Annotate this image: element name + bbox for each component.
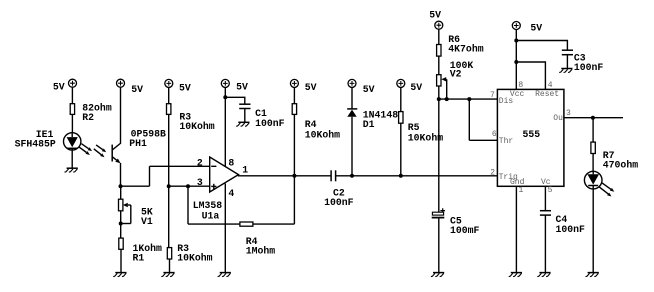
resistor R4 1Mohm (feedback) bbox=[240, 222, 275, 257]
junction C1 tap bbox=[223, 95, 227, 99]
svg-text:V1: V1 bbox=[141, 216, 153, 227]
wire 5V to R5 bbox=[400, 88, 402, 112]
junction Dis rail left bbox=[437, 97, 441, 101]
wire feedback left leg bbox=[187, 186, 189, 224]
capacitor C3 100nF bbox=[562, 50, 604, 73]
svg-text:5V: 5V bbox=[305, 82, 317, 93]
wire 5V to D1 bbox=[351, 88, 353, 109]
capacitor C4 100nF bbox=[540, 211, 585, 235]
svg-text:5V: 5V bbox=[363, 84, 375, 95]
resistor R3 10Kohm (upper) bbox=[167, 104, 215, 132]
resistor R6 4K7ohm bbox=[437, 34, 484, 56]
wire R4 to output column bbox=[253, 223, 295, 225]
svg-text:R1: R1 bbox=[133, 252, 145, 263]
phototransistor PH1 0P598B bbox=[112, 87, 166, 186]
resistor R3 10Kohm (lower) bbox=[167, 243, 212, 263]
svg-text:5V: 5V bbox=[530, 22, 542, 33]
light ray arrow from LED (upper) bbox=[602, 183, 614, 192]
wire V1 to R1 bbox=[120, 211, 122, 238]
junction out node bbox=[591, 116, 595, 120]
svg-text:4K7ohm: 4K7ohm bbox=[448, 44, 483, 55]
wire op-amp pin 4 to ground bbox=[224, 184, 226, 273]
wire C1 tap bbox=[225, 97, 245, 104]
light ray arrow from LED (lower) bbox=[599, 187, 611, 197]
wire feedback to R4 bbox=[188, 223, 240, 225]
svg-text:U1a: U1a bbox=[202, 210, 220, 221]
junction divider to op-amp pin 3 bbox=[167, 184, 171, 188]
wire 555 pin 1 to ground bbox=[515, 186, 517, 272]
wire C5 column bbox=[438, 99, 440, 213]
wire 5V to R6 bbox=[438, 29, 440, 44]
svg-text:4: 4 bbox=[548, 81, 553, 90]
capacitor C1 100nF bbox=[239, 104, 284, 129]
ground (C4) bbox=[537, 273, 550, 277]
svg-text:5V: 5V bbox=[53, 82, 65, 93]
svg-text:100nF: 100nF bbox=[324, 197, 354, 208]
svg-text:5V: 5V bbox=[179, 82, 191, 93]
ground (IE1) bbox=[65, 168, 78, 172]
supply 5V (IE1 branch) bbox=[53, 79, 77, 92]
junction output node bbox=[292, 174, 296, 178]
junction C3 tap bbox=[514, 39, 518, 43]
wire jog to op-amp pin 2 bbox=[150, 165, 210, 167]
wire R3 divider column bbox=[168, 114, 170, 247]
svg-text:SFH485P: SFH485P bbox=[15, 139, 56, 150]
resistor R1 1Kohm bbox=[119, 238, 162, 263]
wire Thr jog down bbox=[468, 99, 470, 140]
wire Thr jog to 555 pin 6 bbox=[469, 139, 497, 141]
svg-text:8: 8 bbox=[228, 157, 234, 168]
wire LED to ground bbox=[592, 189, 594, 273]
svg-text:470ohm: 470ohm bbox=[603, 160, 638, 171]
ground (R1) bbox=[113, 273, 126, 277]
svg-text:2: 2 bbox=[197, 157, 203, 168]
junction R5 node bbox=[399, 174, 403, 178]
ground (R3 divider) bbox=[161, 273, 174, 277]
light ray arrow to PH1 (lower) bbox=[94, 149, 105, 158]
IC U2 555 bbox=[497, 89, 564, 186]
LED IE1 SFH485P bbox=[15, 129, 81, 150]
svg-text:Dis: Dis bbox=[499, 97, 514, 106]
svg-text:10Kohm: 10Kohm bbox=[177, 252, 212, 263]
wire 5V to R2 bbox=[71, 87, 73, 103]
svg-text:10Kohm: 10Kohm bbox=[179, 121, 214, 132]
svg-text:5V: 5V bbox=[131, 84, 143, 95]
svg-text:Reset: Reset bbox=[535, 90, 559, 99]
svg-text:10Kohm: 10Kohm bbox=[408, 132, 443, 143]
wire out node to R7 bbox=[592, 118, 594, 142]
wire 5V to op-amp pin 8 bbox=[224, 88, 226, 168]
ground (555 Gnd) bbox=[509, 273, 522, 277]
wire C5 to ground bbox=[438, 217, 440, 272]
ground (op-amp pin 4) bbox=[218, 273, 231, 277]
svg-text:D1: D1 bbox=[363, 119, 375, 130]
svg-text:PH1: PH1 bbox=[129, 138, 147, 149]
svg-text:3: 3 bbox=[566, 109, 571, 118]
supply 5V (555 Vcc) bbox=[512, 22, 542, 34]
potentiometer V2 100K bbox=[437, 60, 474, 99]
wire R6 to V2 bbox=[438, 56, 440, 75]
wire R7 to LED bbox=[592, 154, 594, 172]
resistor R5 10Kohm bbox=[399, 112, 444, 144]
wire C3 tap bbox=[516, 41, 567, 51]
supply 5V (R5) bbox=[397, 79, 422, 93]
svg-text:1: 1 bbox=[519, 186, 524, 195]
svg-text:10Kohm: 10Kohm bbox=[305, 129, 340, 140]
wire C1 to ground bbox=[244, 109, 246, 123]
svg-text:Ou: Ou bbox=[553, 114, 563, 123]
ground (LED) bbox=[586, 273, 599, 277]
wire 555 out bbox=[564, 117, 623, 119]
supply 5V (op-amp pin 8) bbox=[221, 79, 248, 92]
svg-text:1Mohm: 1Mohm bbox=[246, 246, 276, 257]
resistor R7 470ohm bbox=[591, 142, 638, 170]
wire emitter node to V1 bbox=[120, 186, 122, 199]
supply 5V (R3 divider) bbox=[165, 79, 191, 93]
svg-text:100mF: 100mF bbox=[450, 225, 480, 236]
potentiometer V1 5K bbox=[119, 199, 153, 227]
diode D1 1N4148 bbox=[347, 109, 398, 130]
LED (output indicator) bbox=[584, 171, 602, 189]
supply 5V (R6/V2 branch) bbox=[429, 9, 443, 29]
wire IE1 to ground bbox=[71, 150, 73, 168]
wire C4 to ground bbox=[544, 215, 546, 272]
supply 5V (R4 pull-up) bbox=[290, 79, 316, 93]
wire 5V to 555 pin 8 bbox=[515, 30, 517, 90]
supply 5V (D1) bbox=[348, 79, 375, 94]
wire jog up bbox=[149, 166, 151, 186]
light ray arrow to PH1 (upper) bbox=[96, 145, 106, 152]
op-amp U1a LM358 bbox=[193, 157, 239, 221]
wire C3 to ground bbox=[566, 55, 568, 69]
wire feedback right leg bbox=[293, 176, 295, 224]
svg-text:100nF: 100nF bbox=[574, 62, 604, 73]
wire op-amp pin 3 line bbox=[169, 185, 210, 187]
wire R1 to ground bbox=[120, 249, 122, 272]
ground (C1) bbox=[236, 122, 249, 126]
capacitor C5 100mF (electrolytic) bbox=[432, 208, 480, 236]
wire V2 to Dis rail bbox=[438, 86, 440, 99]
junction feedback to pin 3 bbox=[186, 184, 190, 188]
wire 5V to R3 bbox=[168, 88, 170, 104]
junction V1 wiper node bbox=[119, 222, 123, 226]
junction V2 wiper on rail bbox=[445, 97, 449, 101]
wire emitter node to jog bbox=[121, 185, 150, 187]
wire op-amp output to C2 bbox=[238, 175, 331, 177]
junction Thr tap on rail bbox=[467, 97, 471, 101]
light ray arrow from IE1 (lower) bbox=[79, 147, 90, 155]
capacitor C2 100nF (coupling) bbox=[324, 170, 354, 208]
svg-text:555: 555 bbox=[523, 129, 541, 140]
ground (C3) bbox=[559, 69, 572, 73]
wire 555 pin 5 to C4 bbox=[544, 186, 546, 210]
junction D1 node bbox=[350, 174, 354, 178]
resistor R2 82ohm bbox=[70, 103, 112, 124]
svg-text:5: 5 bbox=[548, 186, 553, 195]
svg-text:5V: 5V bbox=[410, 82, 422, 93]
svg-text:Thr: Thr bbox=[499, 137, 514, 146]
wire Reset tap to 555 pin 4 bbox=[516, 62, 545, 89]
wire R5 to signal line bbox=[400, 123, 402, 176]
svg-text:LM358: LM358 bbox=[193, 200, 223, 211]
junction PH1 emitter node bbox=[119, 184, 123, 188]
svg-text:4: 4 bbox=[228, 188, 234, 199]
junction Reset tap bbox=[514, 60, 518, 64]
resistor R4 10Kohm (pull-up) bbox=[292, 104, 340, 141]
svg-text:7: 7 bbox=[490, 91, 495, 100]
wire 5V to R4 bbox=[293, 88, 295, 104]
svg-text:V2: V2 bbox=[450, 68, 462, 79]
wire D1 to signal line bbox=[351, 117, 353, 176]
wire Dis rail to 555 pin 7 bbox=[439, 98, 498, 100]
svg-text:R2: R2 bbox=[82, 112, 94, 123]
wire R4 to output line bbox=[293, 114, 295, 175]
svg-text:6: 6 bbox=[492, 130, 497, 139]
svg-text:1: 1 bbox=[242, 164, 248, 175]
wire C2 to 555 Trig bbox=[336, 175, 498, 177]
wire R2 to IE1 bbox=[71, 114, 73, 133]
svg-text:2: 2 bbox=[490, 168, 495, 177]
svg-text:8: 8 bbox=[518, 81, 523, 90]
supply 5V (PH1 collector) bbox=[117, 79, 144, 95]
svg-text:100nF: 100nF bbox=[556, 224, 586, 235]
svg-text:5V: 5V bbox=[429, 9, 441, 20]
ground (C5) bbox=[431, 273, 444, 277]
svg-text:100nF: 100nF bbox=[255, 118, 285, 129]
wire lower R3 to ground bbox=[169, 259, 171, 272]
light ray arrow from IE1 (upper) bbox=[81, 144, 92, 151]
svg-text:5V: 5V bbox=[236, 81, 248, 92]
